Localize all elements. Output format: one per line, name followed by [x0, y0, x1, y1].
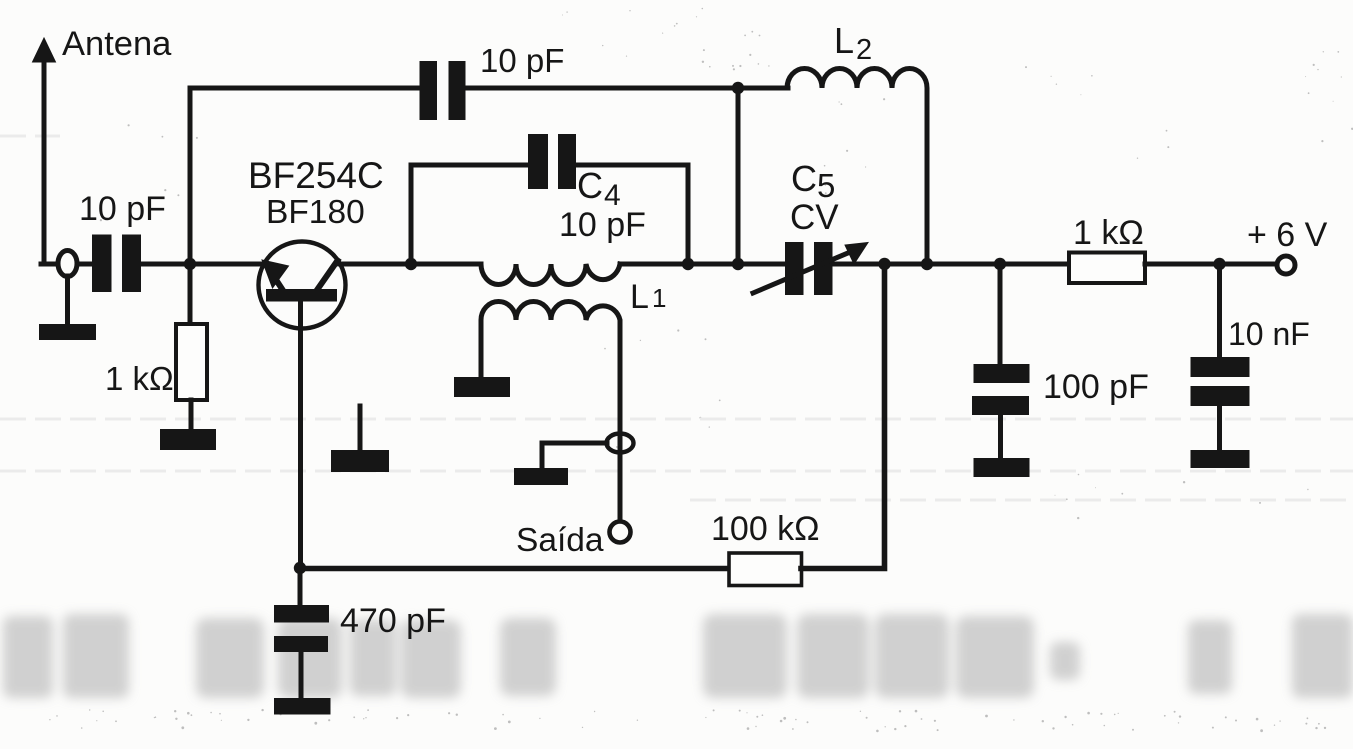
wire L2 left drop: [736, 88, 741, 264]
wire C4 loop top right: [575, 165, 688, 264]
node C4 left: [405, 258, 417, 270]
wire top loop horizontal left: [190, 86, 420, 91]
capacitor C5 CV: [753, 242, 868, 295]
terminal +6V: [1277, 256, 1295, 274]
tap ellipse on secondary: [607, 434, 634, 453]
wire tap to ground: [542, 443, 607, 469]
input terminal: [58, 251, 77, 277]
svg-text:1: 1: [652, 283, 666, 313]
bleed-through artifacts: [3, 614, 1353, 698]
inductor L2: [787, 69, 927, 265]
ground 470pF: [274, 698, 331, 715]
inductor L1 secondary: [481, 302, 620, 522]
transistor Q1 BF254C: [259, 242, 346, 329]
svg-text:1 kΩ: 1 kΩ: [105, 360, 174, 397]
wire input rail: [41, 262, 58, 267]
ground secondary left: [454, 377, 510, 397]
wire R2 to +6V: [1145, 262, 1277, 267]
resistor R3 100k: [729, 553, 802, 586]
capacitor C2 10pF top: [420, 61, 466, 120]
wire terminal to C1: [77, 262, 93, 267]
svg-text:100 pF: 100 pF: [1043, 368, 1149, 406]
ground tap: [514, 468, 568, 485]
label L1: [630, 278, 666, 316]
node 100pF top: [994, 258, 1006, 270]
node L2 top: [732, 82, 744, 94]
node feedback top: [878, 258, 890, 270]
wire emitter down: [298, 300, 303, 568]
svg-text:CV: CV: [790, 198, 839, 237]
svg-text:L: L: [630, 278, 649, 316]
svg-text:+ 6 V: + 6 V: [1247, 216, 1328, 254]
wire transistor to L1: [340, 262, 481, 267]
node 10nF top: [1213, 258, 1225, 270]
svg-text:Antena: Antena: [62, 25, 172, 63]
ground floating: [331, 406, 389, 472]
label C4: [577, 165, 621, 212]
capacitor C7 10nF: [1191, 264, 1250, 451]
ground 100pF: [974, 458, 1030, 477]
wire L1 to C5: [620, 262, 786, 267]
svg-text:C: C: [577, 165, 603, 206]
svg-text:10 pF: 10 pF: [559, 206, 646, 244]
ground R1: [160, 429, 216, 450]
node base junction: [184, 258, 196, 270]
ground 10nF: [1191, 450, 1250, 468]
wire C1 to transistor: [141, 262, 266, 267]
svg-text:BF180: BF180: [266, 194, 365, 231]
resistor R1 1k bias: [176, 264, 207, 431]
wire C4 loop left/top: [411, 165, 529, 264]
capacitor C3 470pF: [274, 568, 329, 699]
antenna symbol: [33, 38, 56, 264]
wire feedback rail left: [300, 566, 730, 572]
scan band artifacts: [0, 136, 1353, 500]
label C5: [791, 158, 835, 204]
capacitor C1 10pF input: [92, 235, 141, 293]
svg-text:C: C: [791, 158, 817, 199]
svg-text:1 kΩ: 1 kΩ: [1073, 214, 1144, 252]
svg-text:10 nF: 10 nF: [1228, 316, 1310, 352]
capacitor C4: [528, 134, 576, 189]
capacitor C6 100pF: [972, 264, 1030, 459]
svg-text:10 pF: 10 pF: [79, 190, 166, 228]
ground input: [39, 324, 96, 340]
wire input ground stem: [65, 276, 70, 326]
svg-text:BF254C: BF254C: [248, 155, 384, 196]
node C4 right: [682, 258, 694, 270]
svg-text:470 pF: 470 pF: [340, 602, 446, 640]
svg-text:2: 2: [856, 34, 872, 66]
svg-text:L: L: [834, 20, 854, 61]
label L2: [834, 20, 872, 66]
svg-text:Saída: Saída: [516, 522, 604, 559]
wire top loop vertical: [188, 88, 193, 264]
node L2 bottom-right: [921, 258, 933, 270]
wire top loop horizontal right: [466, 86, 788, 91]
node emitter junction: [294, 562, 306, 574]
svg-text:100 kΩ: 100 kΩ: [711, 510, 820, 548]
resistor R2 1k: [1069, 253, 1145, 284]
wire feedback rail right: [801, 264, 885, 569]
svg-text:10 pF: 10 pF: [480, 42, 564, 79]
terminal Saida: [610, 522, 631, 543]
node L2 bottom-left: [732, 258, 744, 270]
inductor L1 primary: [481, 264, 620, 284]
wire C5 to R2: [833, 262, 1070, 267]
